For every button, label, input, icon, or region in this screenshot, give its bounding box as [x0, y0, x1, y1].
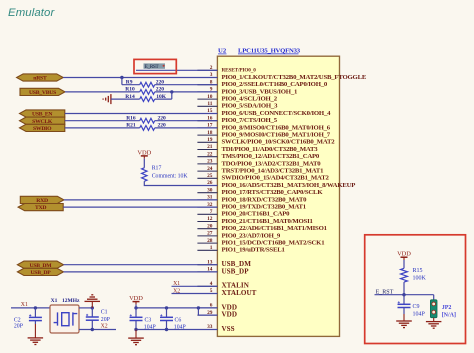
svg-text:X1: X1 [21, 302, 28, 308]
wire R10 to U2 pin 9 [155, 91, 218, 93]
svg-text:PIO0_9/MOSI0/CT16B0_MAT1/IOH_7: PIO0_9/MOSI0/CT16B0_MAT1/IOH_7 [222, 132, 331, 139]
svg-text:100K: 100K [413, 275, 427, 281]
wire TXD to U2 pin 32 [63, 206, 217, 208]
svg-text:E_RST: E_RST [376, 290, 394, 296]
ground under C9 [396, 321, 412, 328]
svg-text:PIO1_15/DCD/CT16B0_MAT2/SCK1: PIO1_15/DCD/CT16B0_MAT2/SCK1 [222, 240, 326, 247]
wire R15 to E_RST node [403, 282, 405, 295]
resistor R14 [140, 97, 155, 102]
port SWDIO [20, 124, 65, 131]
wire nRST to U2 pin 3 [63, 77, 217, 79]
svg-text:USB_DP: USB_DP [222, 267, 250, 275]
junction C3 bottom [134, 328, 137, 331]
svg-text:TRST/PIO0_14/AD3/CT32B1_MAT1: TRST/PIO0_14/AD3/CT32B1_MAT1 [222, 168, 325, 175]
wire USB_EN to U2 pin 15 [65, 113, 218, 115]
svg-text:25: 25 [207, 173, 213, 179]
ground (inverted) above C1 [85, 295, 101, 308]
U2 pin 32 PIO0_19/TXD/CT32B0_MAT1 [197, 202, 306, 211]
U2 pin 28 PIO1_15/DCD/CT16B0_MAT2/SCK1 [197, 238, 325, 247]
U2 pin 20 PIO0_22/AD6/CT16B1_MAT1/MISO1 [197, 223, 327, 232]
IC U2 LPC11U35_HVQFN33 body [217, 56, 339, 336]
wire net X2 to U2 pin 5 (XTALOUT) [172, 293, 218, 295]
svg-text:PIO0_7/CTS/IOH_5: PIO0_7/CTS/IOH_5 [222, 117, 278, 124]
net label E_RST (highlighted) [144, 63, 166, 70]
U2 pin 17 PIO0_8/MISO0/CT16B0_MAT0/IOH_6 [197, 123, 330, 132]
svg-text:PIO0_16/AD5/CT32B1_MAT3/IOH_8/: PIO0_16/AD5/CT32B1_MAT3/IOH_8/WAKEUP [222, 182, 356, 189]
svg-text:PIO0_5/SDA/IOH_3: PIO0_5/SDA/IOH_3 [222, 103, 279, 110]
U2 pin 21 TDI/PIO0_11/AD0/CT32B0_MAT3 [197, 144, 318, 153]
svg-text:12MHz: 12MHz [62, 298, 80, 304]
port USB_EN [20, 110, 65, 117]
ground under C3 [128, 330, 144, 345]
svg-text:19: 19 [207, 137, 213, 143]
svg-text:22: 22 [207, 151, 213, 157]
svg-text:30: 30 [207, 187, 213, 193]
power VDD (R17 pull-up) [137, 149, 151, 158]
U2 pin 10 PIO0_4/SCL/IOH_2 [197, 94, 277, 103]
U2 pin 19 SWCLK/PIO0_10/SCK0/CT16B0_MAT2 [197, 137, 335, 146]
capacitor C9 [398, 295, 411, 321]
U2 pin 3 PIO0_1/CLKOUT/CT32B0_MAT2/USB_FTOGGLE [197, 72, 366, 81]
resistor R15 [401, 268, 408, 282]
wire SWCLK to R16 [65, 120, 140, 122]
svg-text:PIO0_4/SCL/IOH_2: PIO0_4/SCL/IOH_2 [222, 96, 278, 103]
resistor R21 [140, 126, 155, 131]
junction E_RST node [402, 293, 405, 296]
port TXD [18, 204, 63, 211]
junction R14 branch [170, 90, 173, 93]
svg-text:X1: X1 [173, 281, 180, 287]
wire USB_DP to U2 pin 14 [64, 271, 218, 273]
power VDD (reset) [397, 250, 411, 260]
capacitor C2 [29, 308, 42, 338]
U2 pin 6 VDD [197, 303, 237, 312]
svg-text:20P: 20P [14, 324, 23, 330]
wire crystal bottom-right pad to X2 [79, 329, 116, 331]
U2 pin 4 XTALIN [197, 281, 249, 290]
svg-text:28: 28 [207, 238, 213, 244]
resistor R16 [140, 118, 155, 123]
svg-text:PIO0_8/MISO0/CT16B0_MAT0/IOH_6: PIO0_8/MISO0/CT16B0_MAT0/IOH_6 [222, 124, 331, 131]
wire net X1 to U2 pin 4 (XTALIN) [172, 285, 218, 287]
U2 pin 13 USB_DM [197, 259, 251, 268]
svg-text:R17: R17 [152, 165, 162, 171]
junction C6 top [165, 306, 168, 309]
wire ground rail to U2 pin 33 (VSS) [136, 329, 217, 331]
wire VDD down to rail [135, 304, 137, 308]
wire E_RST to U2 pin 2 [136, 69, 217, 71]
svg-text:11: 11 [207, 101, 212, 107]
svg-text:R9: R9 [126, 79, 133, 85]
wire RXD to U2 pin 31 [64, 199, 218, 201]
svg-text:18: 18 [207, 130, 213, 136]
U2 pin 8 PIO0_2/SSEL0/CT16B0_CAP0/IOH_0 [197, 79, 327, 88]
svg-text:PIO0_20/CT16B1_CAP0: PIO0_20/CT16B1_CAP0 [222, 211, 291, 218]
power VDD (decoupling rail) [129, 295, 143, 304]
junction C6 bottom [165, 328, 168, 331]
svg-text:21: 21 [207, 144, 213, 150]
svg-text:PIO0_17/RTS/CT32B0_CAP0/SCLK: PIO0_17/RTS/CT32B0_CAP0/SCLK [222, 189, 324, 196]
svg-text:PIO0_21/CT16B1_MAT0/MOSI1: PIO0_21/CT16B1_MAT0/MOSI1 [222, 218, 314, 225]
junction crystal/C1/ground [91, 306, 94, 309]
svg-text:Emulator: Emulator [8, 7, 55, 19]
junction C2 tap [34, 306, 37, 309]
svg-text:1: 1 [210, 245, 213, 251]
U2 pin 30 PIO0_17/RTS/CT32B0_CAP0/SCLK [197, 187, 323, 196]
svg-text:U2: U2 [218, 48, 227, 55]
svg-text:23: 23 [207, 159, 213, 165]
svg-text:JP2: JP2 [442, 305, 452, 311]
svg-text:PIO0_1/CLKOUT/CT32B0_MAT2/USB_: PIO0_1/CLKOUT/CT32B0_MAT2/USB_FTOGGLE [222, 74, 367, 81]
svg-text:R10: R10 [125, 87, 135, 93]
U2 pin 7 PIO0_20/CT16B1_CAP0 [197, 209, 290, 218]
wire VDD branch to U2 pin 29 [198, 308, 217, 315]
wire to R9 [122, 84, 140, 86]
port USB_DP [17, 268, 63, 275]
svg-text:X2: X2 [101, 324, 108, 330]
svg-text:TDI/PIO0_11/AD0/CT32B0_MAT3: TDI/PIO0_11/AD0/CT32B0_MAT3 [222, 146, 319, 153]
svg-text:PIO0_3/USB_VBUS/IOH_1: PIO0_3/USB_VBUS/IOH_1 [222, 88, 298, 95]
U2 pin 11 PIO0_5/SDA/IOH_3 [197, 101, 278, 110]
port SWCLK [20, 117, 65, 124]
svg-text:PIO0_19/TXD/CT32B0_MAT1: PIO0_19/TXD/CT32B0_MAT1 [222, 204, 307, 211]
svg-text:TMS/PIO0_12/AD1/CT32B1_CAP0: TMS/PIO0_12/AD1/CT32B1_CAP0 [222, 153, 320, 160]
capacitor C6 [160, 308, 173, 330]
svg-text:104P: 104P [413, 311, 426, 317]
port nRST [17, 74, 64, 81]
svg-text:27: 27 [207, 231, 213, 237]
U2 pin 18 PIO0_9/MOSI0/CT16B0_MAT1/IOH_7 [197, 130, 330, 139]
port USB_DM [17, 261, 63, 268]
svg-text:LPC11U35_HVQFN33: LPC11U35_HVQFN33 [238, 48, 301, 55]
wire ground to R14 [111, 98, 140, 100]
svg-text:VSS: VSS [222, 325, 235, 333]
capacitor C1 [86, 308, 99, 330]
wire USB_DM to U2 pin 13 [64, 264, 218, 266]
U2 pin 1 PIO1_19/uDTR/SSEL1 [197, 245, 285, 254]
U2 pin 16 PIO0_7/CTS/IOH_5 [197, 115, 277, 124]
svg-text:X2: X2 [173, 288, 180, 294]
wire JP2 to ground [433, 318, 435, 322]
svg-text:10: 10 [207, 94, 213, 100]
wire X1 net to crystal [11, 307, 50, 309]
junction VDD branch [197, 306, 200, 309]
svg-text:TXD: TXD [35, 205, 46, 211]
svg-text:12: 12 [207, 216, 213, 222]
wire R9 to U2 pin 8 [155, 84, 218, 86]
U2 pin 25 SWDIO/PIO0_15/AD4/CT32B1_MAT2 [197, 173, 329, 182]
crystal X1 body [50, 305, 79, 333]
svg-text:PIO0_23/AD7/IOH_9: PIO0_23/AD7/IOH_9 [222, 232, 281, 239]
svg-text:USB_DP: USB_DP [30, 270, 51, 276]
port USB_VBUS [20, 88, 65, 95]
svg-text:C3: C3 [145, 317, 152, 323]
resistor R10 [140, 90, 155, 95]
svg-text:PIO0_2/SSEL0/CT16B0_CAP0/IOH_0: PIO0_2/SSEL0/CT16B0_CAP0/IOH_0 [222, 81, 328, 88]
resistor R17 [142, 168, 147, 182]
svg-text:20P: 20P [101, 317, 110, 323]
wire R17 to U2 pin 26 [144, 181, 217, 185]
wire E_RST node to JP2 [433, 295, 435, 300]
capacitor C3 [130, 308, 143, 330]
svg-text:nRST: nRST [33, 76, 47, 82]
junction on nRST wire [120, 76, 123, 79]
svg-text:X1: X1 [51, 298, 58, 304]
wire VDD to R17 [143, 159, 145, 168]
svg-text:VDD: VDD [397, 250, 411, 257]
junction crystal X2 node [91, 328, 94, 331]
U2 pin 31 PIO0_18/RXD/CT32B0_MAT0 [197, 195, 307, 204]
svg-text:R15: R15 [413, 268, 423, 274]
svg-text:PIO0_6/USB_CONNECT/SCK0/IOH_4: PIO0_6/USB_CONNECT/SCK0/IOH_4 [222, 110, 332, 117]
wire R21 to U2 pin 17 [155, 127, 218, 129]
wire R16 to U2 pin 16 [155, 120, 218, 122]
ground under C2 [28, 338, 43, 345]
svg-text:C2: C2 [14, 318, 21, 324]
U2 pin 5 XTALOUT [197, 288, 256, 297]
jumper JP2 [430, 300, 437, 318]
wire crystal top-right pad [79, 307, 92, 309]
svg-text:PIO0_18/RXD/CT32B0_MAT0: PIO0_18/RXD/CT32B0_MAT0 [222, 196, 308, 203]
wire VDD rail to U2 pin 6 [136, 307, 217, 309]
svg-text:24: 24 [207, 166, 213, 172]
ground under JP2 [426, 322, 442, 329]
wire junction down to R14 [171, 92, 173, 99]
junction VDD/C3 [134, 306, 137, 309]
red highlight box around E_RST [134, 59, 176, 73]
svg-text:7: 7 [210, 209, 213, 215]
svg-text:VDD: VDD [222, 311, 238, 319]
svg-text:RESET/PIO0_0: RESET/PIO0_0 [222, 68, 257, 74]
wire E_RST node horizontal [375, 294, 434, 296]
svg-text:C6: C6 [175, 317, 182, 323]
port RXD [20, 196, 64, 203]
svg-text:USB_VBUS: USB_VBUS [29, 90, 56, 96]
U2 pin 33 VSS [197, 324, 234, 333]
svg-text:TDO/PIO0_13/AD2/CT32B1_MAT0: TDO/PIO0_13/AD2/CT32B1_MAT0 [222, 160, 322, 167]
svg-text:C1: C1 [101, 309, 108, 315]
U2 pin 12 PIO0_21/CT16B1_MAT0/MOSI1 [197, 216, 313, 225]
U2 pin 27 PIO0_23/AD7/IOH_9 [197, 231, 280, 240]
svg-text:SWCLK/PIO0_10/SCK0/CT16B0_MAT2: SWCLK/PIO0_10/SCK0/CT16B0_MAT2 [222, 139, 336, 146]
svg-text:XTALOUT: XTALOUT [222, 289, 257, 297]
wire junction down to R9 [121, 78, 123, 85]
svg-text:PIO1_19/uDTR/SSEL1: PIO1_19/uDTR/SSEL1 [222, 247, 286, 254]
U2 pin 26 PIO0_16/AD5/CT32B1_MAT3/IOH_8/WAKEUP [197, 180, 355, 189]
svg-text:PIO0_22/AD6/CT16B1_MAT1/MISO1: PIO0_22/AD6/CT16B1_MAT1/MISO1 [222, 225, 328, 232]
U2 pin 15 PIO0_6/USB_CONNECT/SCK0/IOH_4 [197, 108, 331, 117]
ground (sideways) at R14 [103, 94, 111, 104]
wire R14 to junction [155, 98, 172, 100]
svg-text:[N/A]: [N/A] [442, 313, 456, 319]
U2 pin 14 USB_DP [197, 267, 249, 276]
svg-text:SWDIO: SWDIO [33, 126, 52, 132]
wire SWDIO to R21 [65, 127, 140, 129]
U2 pin 22 TMS/PIO0_12/AD1/CT32B1_CAP0 [197, 151, 320, 160]
wire VDD to R15 [403, 260, 405, 268]
U2 pin 9 PIO0_3/USB_VBUS/IOH_1 [197, 87, 298, 96]
U2 pin 2 RESET/PIO0_0 [197, 65, 256, 74]
red highlight box (reset circuit) [365, 235, 466, 344]
wire USB_VBUS to R10 [65, 91, 140, 93]
svg-text:Comment: 10K: Comment: 10K [152, 173, 189, 179]
resistor R9 [140, 82, 155, 87]
svg-text:C9: C9 [413, 304, 420, 310]
U2 pin 23 TDO/PIO0_13/AD2/CT32B1_MAT0 [197, 159, 321, 168]
U2 pin 24 TRST/PIO0_14/AD3/CT32B1_MAT1 [197, 166, 324, 175]
U2 pin 29 VDD [197, 310, 237, 319]
svg-text:R21: R21 [126, 123, 136, 129]
svg-text:20: 20 [207, 223, 213, 229]
svg-text:E_RST: E_RST [145, 64, 160, 70]
svg-text:SWDIO/PIO0_15/AD4/CT32B1_MAT2: SWDIO/PIO0_15/AD4/CT32B1_MAT2 [222, 175, 330, 182]
svg-text:R14: R14 [125, 94, 135, 100]
svg-text:R16: R16 [126, 115, 136, 121]
